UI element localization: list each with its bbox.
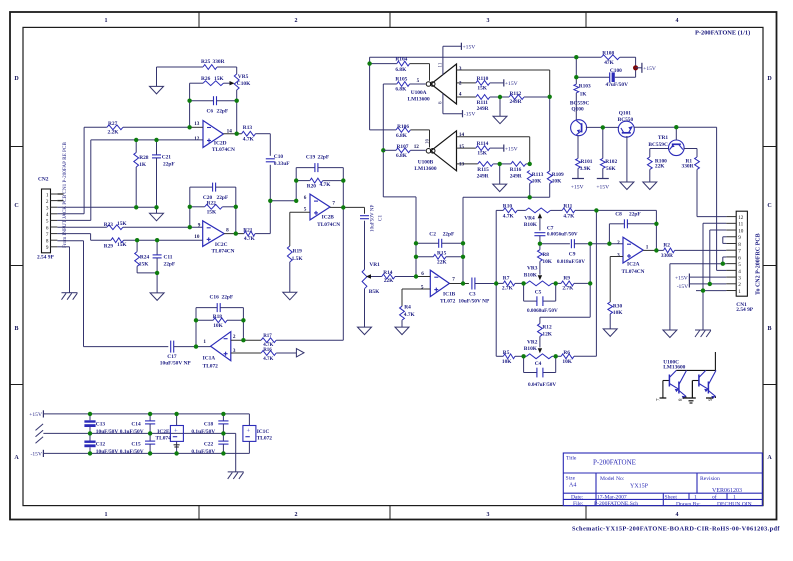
svg-text:B5K: B5K [369,289,380,295]
svg-text:VR5: VR5 [238,74,249,80]
svg-text:VER061203: VER061203 [712,488,742,494]
svg-text:7: 7 [738,249,741,255]
wire CN1 pin5 row to ground [670,264,726,330]
resistor R11 [551,208,597,213]
svg-text:R5: R5 [503,350,510,356]
transistor Q101 [618,121,634,137]
svg-text:6: 6 [304,195,307,201]
wire CN1 pin12 row [697,216,726,218]
svg-text:10: 10 [738,228,744,234]
wire IC2A pin3 to R30 [610,257,623,303]
wire Q101 to TR1 and CN1 pin4 column [634,127,726,270]
power +15V at R102 [596,179,609,191]
power +15V at R114 [504,145,518,153]
svg-text:R18: R18 [213,314,223,320]
svg-text:15: 15 [459,144,465,150]
wire net A R107-rail to IC1B [383,196,416,198]
resistor R107 [383,148,425,153]
svg-text:1K: 1K [139,162,147,168]
svg-text:0.33uF: 0.33uF [274,161,290,167]
capacitor C7 [534,233,545,244]
svg-text:22K: 22K [655,163,665,169]
resistor R115 [478,162,500,167]
svg-text:9: 9 [46,245,49,251]
svg-text:13: 13 [459,162,465,168]
ground at CN1 pin5 [663,330,677,338]
svg-text:IC2D: IC2D [214,141,227,147]
svg-text:R10: R10 [503,203,513,209]
wire rail R105 R107 [382,84,384,197]
wire CN1 pin1 row [696,290,726,292]
svg-text:A4: A4 [569,483,576,489]
svg-text:10uF/50V NP: 10uF/50V NP [160,361,192,367]
border frame inner [23,27,763,505]
svg-text:D: D [14,76,19,82]
svg-text:22pF: 22pF [164,261,176,267]
capacitor C9 [571,239,590,248]
svg-text:22pF: 22pF [217,195,229,201]
wire IC2D output [223,133,241,135]
svg-text:B: B [14,326,18,332]
svg-text:R7: R7 [503,276,510,282]
svg-text:2: 2 [295,512,298,518]
svg-text:5: 5 [46,219,49,225]
resistor R27 [84,125,190,130]
svg-text:6.8K: 6.8K [395,67,407,73]
op-amp IC2A [623,237,643,263]
svg-text:10K: 10K [552,179,562,185]
svg-text:15K: 15K [117,242,127,248]
svg-text:6.8K: 6.8K [395,87,407,93]
svg-text:-15V: -15V [464,112,476,118]
svg-text:8: 8 [738,242,741,248]
svg-text:Schematic-YX15P-200FATONE-BOAR: Schematic-YX15P-200FATONE-BOARD-CIR-RoHS… [572,526,780,533]
capacitor C16 [196,303,243,312]
svg-text:U100B: U100B [418,159,434,165]
svg-text:R107: R107 [397,144,409,150]
capacitor C22 [218,433,228,453]
resistor R113 [527,171,532,198]
junctions U100A [367,61,552,152]
svg-text:A: A [14,455,19,461]
wire IC2D pin12 [91,139,203,141]
svg-text:C: C [767,203,771,209]
CN1 pin stubs [726,217,736,291]
svg-text:4: 4 [459,92,462,98]
svg-text:Size: Size [566,476,576,482]
svg-text:4.7K: 4.7K [263,357,273,362]
wire VR1 bottom to ground [364,289,366,327]
power +15V at R101 [571,179,584,191]
resistor R110 [476,81,504,86]
resistor R109 [547,171,552,183]
svg-text:+15V: +15V [571,184,584,190]
svg-text:7: 7 [46,232,49,238]
wire rail R104 R106 [369,57,371,130]
resistor R116 [500,162,530,167]
wire bias rail R103 [575,57,577,120]
svg-text:Model No:: Model No: [600,476,625,482]
wire CN1 pin6-5 bridge [723,257,726,264]
wire IC1B right rail [462,197,464,283]
resistor R18 [196,318,243,323]
svg-text:12K: 12K [542,331,552,337]
svg-text:P-200FATONE: P-200FATONE [593,459,636,467]
wire IC2A output [643,249,656,251]
junctions IC1B cluster [414,241,465,286]
svg-text:2.2K: 2.2K [108,130,120,136]
capacitor C8 [624,219,656,228]
resistor R24 [135,240,140,273]
svg-text:R9: R9 [563,276,570,282]
resistor R101 [576,158,581,178]
resistor R23 [57,225,202,230]
svg-text:IC1B: IC1B [443,291,456,297]
svg-text:R112: R112 [510,91,522,97]
svg-text:+15V: +15V [505,81,518,87]
svg-text:6: 6 [46,225,49,231]
signal arrow port after R16 [296,349,304,357]
svg-text:249R: 249R [510,173,522,179]
resistor R19 [287,246,292,292]
CN2 pin stubs [51,194,58,247]
svg-text:15K: 15K [477,151,487,157]
svg-text:10K: 10K [542,259,552,265]
resistor R29 [91,238,203,243]
U100C pin end marks [660,381,713,404]
transistor TR1 [669,140,685,156]
svg-text:47K: 47K [604,60,614,66]
wire Q100 to Q101 base [586,126,618,128]
svg-text:5: 5 [417,78,420,84]
op-amp IC2C [203,221,225,247]
capacitor C1 [360,216,369,219]
wire IC1A feedback left rail [195,308,197,347]
svg-text:3: 3 [617,252,620,258]
resistor R2 [656,248,726,253]
wire U100A pin2 [457,82,476,84]
svg-text:C12: C12 [96,441,106,447]
svg-text:3: 3 [487,512,490,518]
svg-text:U100A: U100A [411,90,427,96]
wire CN2 pin7 jog [57,234,90,241]
resistor R22 [190,204,236,209]
connector CN2 body [42,189,51,253]
svg-text:3: 3 [459,66,462,72]
wire CN1 pin3 row [689,276,726,278]
capacitor C20 [190,183,236,192]
svg-text:R103: R103 [579,84,591,90]
earth ground power cluster [228,472,244,479]
wire red node to power bar [636,67,642,69]
earth ground CN2 pin9 [62,293,78,300]
capacitor C2 [416,239,463,248]
svg-text:TL074CN: TL074CN [212,248,235,254]
svg-text:2: 2 [295,18,298,24]
svg-text:R27: R27 [108,121,118,127]
svg-text:-15V: -15V [31,452,43,458]
svg-text:R30: R30 [613,303,623,309]
resistor R105 [383,82,425,87]
svg-text:11: 11 [738,222,743,228]
svg-text:C17: C17 [167,354,177,360]
wire CN2 pin8 down-run [57,241,168,347]
junctions IC2C cluster [135,205,238,275]
wire C20 R22 left rail [189,187,191,227]
wire C9 to IC2A pin2 [590,243,623,245]
svg-text:C7: C7 [547,225,554,231]
svg-text:22pF: 22pF [217,109,229,115]
svg-text:C13: C13 [96,421,106,427]
potentiometer VR3 [524,261,556,285]
svg-text:TL074CN: TL074CN [212,147,235,153]
svg-text:4.7K: 4.7K [404,312,416,318]
svg-text:C11: C11 [164,254,173,260]
svg-text:0.1uF/50V: 0.1uF/50V [191,449,215,455]
svg-text:330R: 330R [213,59,225,65]
svg-text:15K: 15K [207,209,217,215]
wire R104 to pin1 [410,64,430,81]
svg-text:R21: R21 [243,227,253,233]
wire TR1 base drop [675,127,677,140]
wire CN1 pin2 row [689,283,726,285]
resistor R15 [416,254,463,259]
wire R115 node to ground [499,164,501,184]
svg-text:C2: C2 [429,231,436,237]
wire CN2 pin4 to R27 [57,127,84,214]
junctions tone stack [494,208,599,358]
capacitor C11 [153,240,162,273]
ground at R19 [283,292,297,300]
svg-text:C6: C6 [207,109,214,115]
svg-text:15K: 15K [139,261,149,267]
op-amp IC1B [430,270,449,296]
IC2E power part [170,414,183,454]
svg-text:R22: R22 [207,201,217,207]
resistor R111 [476,95,500,100]
capacitor C15 [145,433,155,453]
svg-text:9: 9 [738,235,741,241]
svg-text:B10K: B10K [524,272,538,278]
connector CN1 body [736,211,747,296]
svg-text:+: + [174,428,178,435]
svg-text:R115: R115 [477,167,489,173]
junctions CN1 [701,262,725,293]
capacitor C4 with bracket [524,356,556,377]
svg-text:R25: R25 [201,59,211,65]
resistor R8 [538,244,543,262]
wire IC1B output [449,283,469,285]
svg-text:From INPUT JACK PCB CN1 P-200F: From INPUT JACK PCB CN1 P-200FAP RE PCB [62,142,68,248]
wire node C10 to IC2B pin6 [270,200,296,202]
wire IC1A pin3 row [231,352,261,354]
wire ground rail CN2 pin3 [57,207,156,213]
svg-text:+15V: +15V [643,66,656,72]
pin 6 power -15V (U100A) [443,94,476,118]
junctions U100B [498,162,532,200]
junctions bias cluster [574,55,678,130]
svg-text:R114: R114 [477,141,489,147]
svg-text:TL072: TL072 [440,299,456,305]
svg-text:13: 13 [194,121,200,127]
svg-text:4: 4 [46,212,49,218]
wire mid ground rail [43,433,235,472]
svg-text:IC2B: IC2B [322,215,335,221]
svg-text:C21: C21 [162,155,172,161]
resistor R112 [500,95,550,100]
wire C10 vertical [269,134,271,234]
power +15V at R110 [504,79,518,87]
svg-text:R116: R116 [510,167,522,173]
wire IC2B pin5 to R19 [290,212,310,246]
svg-text:249R: 249R [477,106,489,112]
svg-text:249R: 249R [510,99,522,105]
svg-text:2: 2 [617,240,620,246]
svg-text:+15V: +15V [675,275,688,281]
svg-text:R110: R110 [477,76,489,82]
svg-text:8: 8 [226,228,229,234]
resistor R25 [203,65,217,70]
svg-text:3.9K: 3.9K [580,166,592,172]
svg-text:10K: 10K [532,179,542,185]
svg-text:4.7K: 4.7K [320,182,332,188]
wire -15V rail [43,452,249,454]
svg-text:4.7K: 4.7K [563,214,575,220]
wire R24 C11 ground rail [137,273,157,293]
svg-text:0.047uF/50V: 0.047uF/50V [528,382,556,388]
svg-text:P-200FATONE.Sch: P-200FATONE.Sch [594,501,638,507]
capacitor C12 polarized [84,433,95,453]
resistor R1 [695,157,700,217]
resistor R114 [476,146,504,151]
svg-text:R101: R101 [581,159,593,165]
svg-text:56K: 56K [606,166,616,172]
svg-text:+15V: +15V [505,146,518,152]
svg-text:LM13600: LM13600 [663,365,685,371]
svg-text:C100: C100 [610,68,622,74]
svg-text:R109: R109 [552,172,564,178]
capacitor C18 [218,414,228,434]
svg-text:B10K: B10K [524,346,538,352]
svg-text:22pF: 22pF [222,295,234,301]
svg-text:22K: 22K [437,259,447,265]
svg-text:8: 8 [46,239,49,245]
svg-text:IC1C: IC1C [257,429,270,435]
svg-text:0.1uF/50V: 0.1uF/50V [191,429,215,435]
svg-text:C5: C5 [535,289,542,295]
svg-text:1: 1 [694,495,697,501]
junctions IC2D cluster [134,99,272,210]
svg-text:D: D [767,76,772,82]
ground at R4 [395,327,409,335]
svg-text:1: 1 [105,18,108,24]
svg-text:1: 1 [646,245,649,251]
capacitor C10 [266,159,275,162]
wire C17 to IC1A output [174,346,211,348]
svg-text:C3: C3 [469,292,476,298]
svg-text:R12: R12 [542,325,552,331]
svg-text:7: 7 [452,277,455,283]
svg-text:2: 2 [738,282,741,288]
transistor Q100 [571,120,587,136]
wire net B tone feed line [463,196,550,198]
capacitor C100 polarized [576,72,635,82]
svg-text:R17: R17 [263,334,272,339]
resistor R7 [496,281,523,286]
svg-text:R104: R104 [395,56,407,62]
wire IC2B left rail [295,168,297,201]
wire CN2 pin9 to ground [57,247,69,293]
wire C7 node to C9 [540,243,570,245]
resistor R17 [261,338,343,343]
ground at R25 [150,86,164,94]
resistor R20 [296,178,343,183]
resistor R21 [244,231,270,236]
svg-text:2.7K: 2.7K [502,285,514,291]
svg-text:TL074CN: TL074CN [622,269,645,275]
svg-text:10K: 10K [613,310,623,316]
svg-text:7: 7 [332,201,335,207]
wire IC1B pin6 [416,276,430,278]
resistor R6 [556,354,597,359]
svg-text:R19: R19 [293,248,303,254]
ground at C11 [150,293,164,301]
svg-text:R108: R108 [602,51,614,57]
wire C3 node rail [495,210,497,356]
svg-text:1.5K: 1.5K [292,256,304,262]
svg-text:TL072: TL072 [203,364,219,370]
OTA U100B triangle [426,131,456,171]
svg-text:10K: 10K [502,359,512,365]
resistor R9 [556,281,591,286]
svg-text:LM13600: LM13600 [408,97,430,103]
svg-text:15K: 15K [214,76,224,82]
svg-text:11: 11 [439,62,444,67]
svg-text:0.0056uF/50V: 0.0056uF/50V [547,232,578,238]
svg-text:C1: C1 [378,215,384,221]
svg-text:VR4: VR4 [524,215,535,221]
svg-text:YX15P: YX15P [630,484,649,490]
wire U100A pin4 [457,96,476,98]
svg-text:R24: R24 [140,254,150,260]
svg-text:LM13600: LM13600 [414,166,436,172]
svg-text:of: of [712,494,717,501]
resistor R30 [608,302,613,329]
wire CN1 pin10 to pin2 column [710,230,726,284]
wire IC2C output [224,233,244,235]
svg-text:R15: R15 [437,251,447,257]
svg-text:P-200FATONE (1/1): P-200FATONE (1/1) [695,29,750,36]
resistor R12 [538,324,543,337]
svg-text:Revision: Revision [700,476,720,482]
svg-text:R105: R105 [395,76,407,82]
wire IC1B pin5 to R4 [402,289,430,306]
svg-text:B10K: B10K [524,222,538,228]
svg-text:47uF/50V: 47uF/50V [606,82,629,88]
resistor R10 [496,208,526,213]
op-amp IC2D [203,121,223,148]
IC1C power part [243,414,256,454]
svg-text:R113: R113 [532,172,544,178]
wire TR1 right leg to R1 [684,149,697,158]
potentiometer VR4 [526,208,551,231]
svg-text:22K: 22K [384,278,394,284]
wire R11 to C8 loop [596,210,656,250]
svg-text:C: C [14,203,18,209]
svg-text:R20: R20 [307,184,317,190]
power +15V at CN1 pin3 [675,274,689,282]
no-connect marks CN2 pins 1-2 [57,194,63,201]
